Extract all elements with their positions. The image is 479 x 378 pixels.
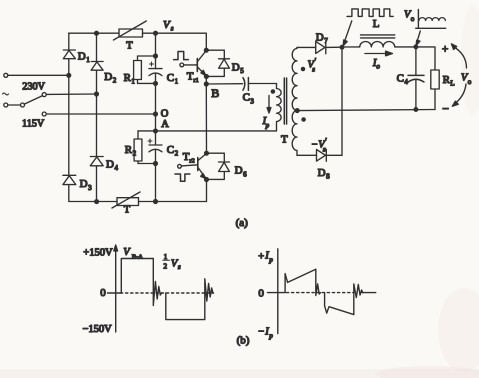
svg-text:′: ′ (325, 137, 327, 146)
secondary polarity dot upper (301, 67, 304, 70)
svg-text:−: − (442, 102, 449, 116)
svg-text:(b): (b) (237, 334, 250, 346)
inductor L (360, 41, 395, 46)
resistor R2 (134, 139, 142, 161)
svg-text:R: R (443, 74, 451, 86)
svg-text:230V: 230V (22, 82, 45, 93)
label T bottom thermistor (124, 205, 131, 216)
svg-text:1: 1 (86, 56, 90, 64)
svg-text:o: o (376, 63, 380, 71)
svg-text:2: 2 (113, 77, 117, 85)
svg-text:R: R (125, 144, 133, 156)
svg-text:p: p (265, 122, 270, 130)
wire: A rail to transformer primary bottom (138, 130, 277, 132)
node: junction dot R1/C1 bottom (154, 82, 158, 86)
C1 plus sign (150, 62, 154, 66)
wire: Tr1 base (184, 64, 198, 66)
svg-text:2: 2 (175, 150, 179, 158)
wire: emitter to node B (205, 76, 207, 84)
node: junction dot R1/C1 top (154, 54, 158, 58)
wire: rectified bus vertical (341, 47, 343, 155)
label RL (443, 74, 455, 88)
Io arrow (365, 51, 393, 56)
primary polarity dot (271, 90, 274, 93)
wire: top rail thermistor to Vs node (143, 32, 156, 34)
label D6 (235, 165, 248, 179)
node Vs junction dot (154, 31, 158, 35)
svg-text:r1: r1 (193, 77, 198, 84)
label 0 (left waveform) (100, 287, 106, 299)
svg-text:+150V: +150V (83, 248, 113, 259)
label +150V (83, 248, 113, 259)
svg-text:T: T (126, 41, 133, 52)
capacitor C4 (408, 47, 424, 110)
wire: D2 to switch node (96, 70, 98, 94)
pulse symbol Tr1 drive (174, 52, 189, 60)
svg-text:D: D (104, 71, 112, 83)
wire: node B to C3 (206, 83, 242, 85)
Ip arrow (267, 96, 271, 114)
arrow: square wave callout to rectified node (343, 21, 352, 46)
label minus (442, 102, 449, 116)
diode D7 (316, 41, 326, 54)
wire: R1 top branch (138, 56, 156, 61)
transformer T primary winding (277, 89, 282, 131)
label D3 (80, 178, 93, 192)
wire: top rail to Tr1 collector corner (156, 33, 207, 50)
transformer core (284, 78, 286, 124)
wire: bottom rail thermistor to Tr2 emitter leg (139, 180, 207, 202)
node: output junction dot (414, 45, 418, 49)
diode D8 (317, 149, 327, 161)
waveform VB-A square wave negative pulse (166, 279, 213, 320)
wire: Tr2 base (181, 165, 197, 166)
node: junction dot C4 bottom rail (414, 108, 418, 112)
wire: D7 to rectified node (326, 46, 342, 48)
wire: switch node down to D4 (96, 94, 98, 157)
svg-text:7: 7 (324, 37, 328, 45)
label Tr2 (183, 151, 195, 165)
svg-text:V: V (163, 19, 171, 31)
wire: output node to RL top corner (416, 47, 435, 70)
svg-text:3: 3 (88, 184, 92, 192)
wire: R2 bottom branch (138, 161, 156, 164)
wire: bottom terminal to switch pivot (8, 104, 21, 106)
label T top thermistor (126, 41, 133, 52)
svg-text:C: C (397, 72, 404, 84)
diode D6 (219, 162, 230, 172)
svg-text:B: B (211, 86, 219, 100)
node: Tr1 emitter junction dot (205, 75, 209, 79)
svg-text:4: 4 (404, 78, 408, 86)
svg-text:0: 0 (100, 287, 106, 299)
svg-text:r2: r2 (189, 158, 194, 165)
label +Ip (258, 251, 273, 265)
node: junction dot switch wire / right leg (95, 92, 99, 96)
Tr2 base terminal (178, 164, 182, 168)
switch 115V contact (42, 112, 46, 116)
svg-text:p: p (268, 256, 273, 264)
node: junction dot C2 bottom (154, 162, 158, 166)
label Io (372, 58, 381, 71)
capacitor C2 (electrolytic) (149, 145, 162, 152)
arrow: ripple callout to output node (416, 31, 420, 45)
waveform b-left y-axis (114, 245, 118, 332)
svg-text:115V: 115V (22, 118, 45, 129)
svg-text:T: T (281, 134, 288, 146)
wire: C3 to primary top (249, 84, 277, 89)
wire: D6 bottom to Tr2 emitter (207, 172, 225, 180)
wire: centre bus C1 bottom to node O (155, 74, 157, 131)
transformer T secondary winding lower half (292, 111, 297, 156)
wire: Tr2 collector to D6 top (207, 153, 225, 162)
svg-text:4: 4 (115, 164, 119, 172)
label -150V (83, 324, 113, 335)
resistor RL (431, 70, 439, 110)
svg-text:C: C (167, 144, 174, 156)
switch pivot contact (21, 103, 25, 107)
label (a) (236, 217, 249, 229)
svg-text:1: 1 (175, 78, 179, 86)
svg-text:o: o (411, 15, 415, 23)
switch 230V contact (42, 93, 46, 97)
svg-text:′: ′ (315, 57, 317, 66)
label L (373, 18, 380, 30)
label D4 (106, 159, 119, 173)
svg-text:B-A: B-A (132, 254, 144, 261)
Vo measurement arc bottom arrow (452, 84, 466, 106)
svg-text:D: D (232, 62, 240, 74)
diode D3 (63, 175, 76, 184)
label C2 (167, 144, 179, 158)
C2 plus sign (148, 139, 152, 143)
svg-text:2: 2 (133, 150, 137, 158)
svg-text:O: O (161, 108, 169, 119)
label 0 (right waveform) (258, 288, 264, 300)
waveform VB-A square wave positive pulse (121, 259, 161, 306)
wire: centre bus A node through C2 (155, 131, 157, 145)
svg-text:s: s (323, 146, 326, 154)
svg-text:T: T (124, 205, 131, 216)
label C1 (167, 72, 179, 86)
Vo measurement arc top arrow (451, 44, 466, 68)
diode D4 (90, 157, 103, 166)
label R2 (125, 144, 137, 158)
label Ip (262, 116, 270, 130)
AC input terminal bottom (4, 103, 8, 107)
wire: D5 bottom to Tr1 emitter (206, 68, 224, 76)
square wave annotation glyph (347, 9, 393, 17)
svg-text:8: 8 (326, 173, 330, 181)
svg-text:R: R (124, 72, 132, 84)
transformer T secondary winding upper half (292, 47, 297, 110)
wire: D1 to 230V node (68, 59, 70, 76)
transistor Tr2 (198, 153, 207, 179)
label Vs (163, 19, 174, 33)
svg-text:+: + (258, 252, 264, 263)
node: junction dot centre bus / bottom rail (154, 200, 158, 204)
svg-text:6: 6 (243, 170, 247, 178)
svg-text:s: s (312, 66, 315, 74)
svg-text:−150V: −150V (83, 324, 113, 335)
svg-text:L: L (373, 18, 380, 30)
svg-text:1: 1 (131, 78, 135, 86)
wire: top terminal to bridge left leg (8, 74, 69, 76)
switch blade (24, 96, 42, 105)
waveform Ip positive half (285, 269, 320, 295)
svg-text:C: C (167, 72, 174, 84)
svg-text:A: A (161, 119, 169, 130)
svg-text:2: 2 (163, 261, 167, 270)
waveform b-right y-axis (277, 249, 279, 334)
label D8 (318, 167, 331, 181)
capacitor C1 (electrolytic) (149, 69, 162, 76)
label 115V (22, 118, 45, 129)
diode D2 (91, 62, 103, 71)
label R1 (124, 72, 136, 86)
thermistor T bottom (112, 192, 140, 208)
wire: left bridge leg upper (68, 33, 70, 50)
label Vs' (308, 57, 317, 74)
svg-text:s: s (178, 263, 181, 271)
node: junction dot A rail / centre bus (154, 129, 158, 133)
wire: R1 bottom branch (138, 80, 156, 84)
label D7 (316, 31, 329, 45)
svg-text:D: D (235, 165, 243, 177)
label Vo output (461, 73, 472, 87)
label one-half Vs (163, 252, 181, 271)
wire: D8 to rectified bus (326, 154, 342, 156)
label -Vs' (312, 137, 328, 154)
svg-text:D: D (80, 178, 88, 190)
wire: node B bus down to Tr2 collector (205, 84, 207, 153)
wire: D3 to bottom rail corner (69, 185, 117, 202)
wire: 115V contact to node O (46, 113, 155, 115)
wire: secondary bottom to D8 (297, 154, 317, 156)
wire: R2 top branch (137, 131, 139, 139)
wire: secondary top to D7 (297, 46, 316, 48)
svg-text:(a): (a) (236, 217, 249, 229)
inductor L core lines (361, 35, 395, 38)
ripple annotation glyph (416, 10, 446, 29)
label Tr1 (187, 71, 199, 85)
label Vo with ripple glyph (404, 10, 415, 24)
wire: D4 to bottom rail (96, 166, 98, 202)
label node B (211, 86, 219, 100)
label (b) (237, 334, 250, 346)
svg-text:L: L (450, 80, 454, 88)
node B junction dot (204, 82, 208, 86)
svg-text:−: − (258, 327, 264, 338)
svg-text:D: D (106, 159, 114, 171)
diode D1 (63, 50, 75, 59)
wire: centre-tap return rail (297, 110, 435, 111)
wire: Tr1 collector to D5 top (206, 50, 224, 59)
AC tilde symbol (3, 93, 9, 95)
wire: centre bus Vs node to C1 top (155, 33, 157, 68)
label node A (161, 119, 169, 130)
node: rectified junction dot (340, 45, 344, 49)
capacitor C3 (243, 78, 248, 91)
node O junction dot (154, 112, 158, 116)
AC input terminal top (4, 73, 8, 77)
wire: 230V contact to right bridge leg (46, 93, 96, 95)
Tr1 base terminal (180, 63, 184, 67)
label T transformer (281, 134, 288, 146)
wire: centre bus C2 bottom to bottom rail (155, 150, 157, 202)
label D5 (232, 62, 245, 76)
svg-text:C: C (243, 92, 250, 104)
label D2 (104, 71, 117, 85)
label node O (161, 108, 169, 119)
wire: L to output node (395, 46, 416, 48)
node: junction dot top rail / D2 leg (95, 31, 99, 35)
waveform Ip negative half (325, 284, 363, 315)
node: Tr2 emitter junction dot (205, 178, 209, 182)
label plus (442, 43, 449, 55)
label D1 (78, 50, 91, 64)
node: Tr1 collector junction dot (204, 48, 208, 52)
svg-text:D: D (78, 50, 86, 62)
secondary polarity dot lower (302, 118, 305, 121)
wire: top rail left of thermistor (69, 32, 119, 34)
thermistor T top (114, 21, 147, 40)
diode D5 (219, 59, 230, 68)
svg-text:5: 5 (240, 67, 244, 75)
node: Tr2 collector junction dot (205, 151, 209, 155)
node: junction dot 230V wire / left leg (67, 73, 71, 77)
svg-text:0: 0 (258, 288, 264, 300)
label C4 (397, 72, 409, 86)
wire: right bridge leg upper (96, 33, 98, 61)
svg-text:3: 3 (250, 97, 254, 105)
svg-text:p: p (268, 332, 273, 340)
svg-text:D: D (318, 167, 326, 179)
waveform b-right x-axis (268, 292, 376, 294)
wire: rectified node to L (342, 46, 360, 48)
node: junction dot D4 leg / bottom rail (95, 200, 99, 204)
waveform b-left x-axis (108, 292, 214, 294)
svg-text:1: 1 (164, 252, 168, 261)
svg-text:s: s (171, 25, 174, 33)
svg-text:D: D (316, 31, 324, 43)
pulse symbol Tr2 drive (inverted) (175, 174, 190, 181)
label C3 (243, 92, 255, 106)
svg-text:V: V (123, 247, 131, 258)
node: secondary centre-tap junction dot (295, 109, 299, 113)
wire: 230V node down to D3 (68, 75, 70, 175)
label -Ip (258, 327, 273, 341)
resistor R1 (134, 61, 142, 80)
svg-text:+: + (442, 43, 449, 55)
svg-text:o: o (468, 78, 472, 86)
label VB-A (123, 247, 143, 261)
transistor Tr1 (197, 50, 206, 76)
label 230V (22, 82, 45, 93)
